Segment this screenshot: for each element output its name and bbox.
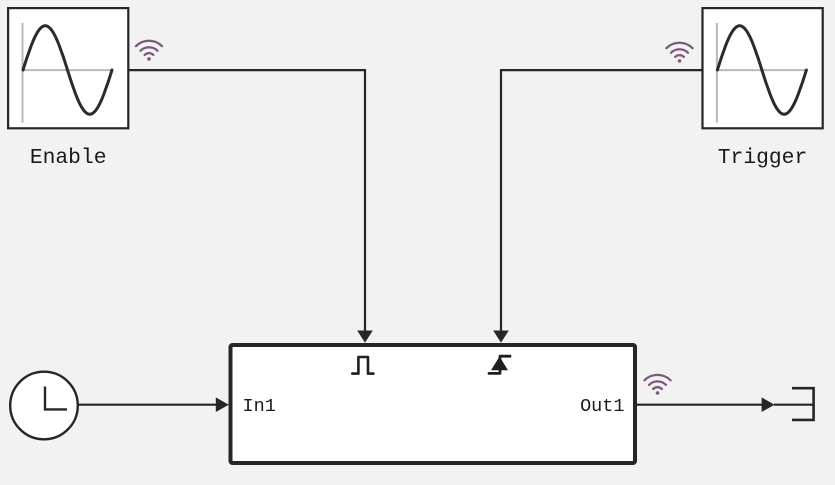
stub into viewer	[774, 404, 813, 406]
trigger port icon (rising edge with arrow)	[489, 356, 510, 373]
clock face	[10, 372, 78, 440]
trigger edge arrowhead	[491, 357, 508, 371]
wireless logging badge (Out1 signal)	[644, 375, 670, 395]
wire Enable -> subsystem enable port	[129, 70, 365, 331]
Enable block frame	[8, 8, 128, 128]
arrowhead down into enable port	[357, 331, 373, 343]
enable port icon (pulse)	[352, 357, 373, 374]
clock source block	[10, 372, 78, 440]
wire Out1 -> viewer	[637, 404, 763, 406]
arrowhead into In1	[216, 397, 229, 412]
source block Enable (sine wave icon)	[8, 8, 128, 128]
trigger edge step	[489, 356, 510, 373]
viewer bracket symbol	[792, 388, 814, 420]
wire Trigger -> subsystem trigger port	[501, 70, 702, 331]
arrowhead at viewer	[762, 397, 775, 412]
svg-text:In1: In1	[243, 396, 276, 417]
wireless logging badge (Enable signal)	[136, 41, 162, 61]
Enable sine waveform	[23, 26, 112, 115]
wireless logging badge (Trigger signal)	[666, 43, 692, 63]
Trigger icon axes	[716, 23, 718, 123]
subsystem block	[231, 345, 636, 463]
svg-text:Out1: Out1	[580, 396, 624, 417]
Enable icon axes	[22, 23, 24, 123]
arrowhead down into trigger port	[493, 331, 509, 343]
clock hands	[45, 387, 67, 410]
svg-text:Enable: Enable	[30, 146, 107, 170]
wire clock -> In1	[78, 404, 217, 406]
svg-text:Trigger: Trigger	[718, 146, 807, 170]
Trigger sine waveform	[717, 26, 806, 115]
Trigger block frame	[703, 8, 823, 128]
source block Trigger (sine wave icon, flipped output)	[703, 8, 823, 128]
